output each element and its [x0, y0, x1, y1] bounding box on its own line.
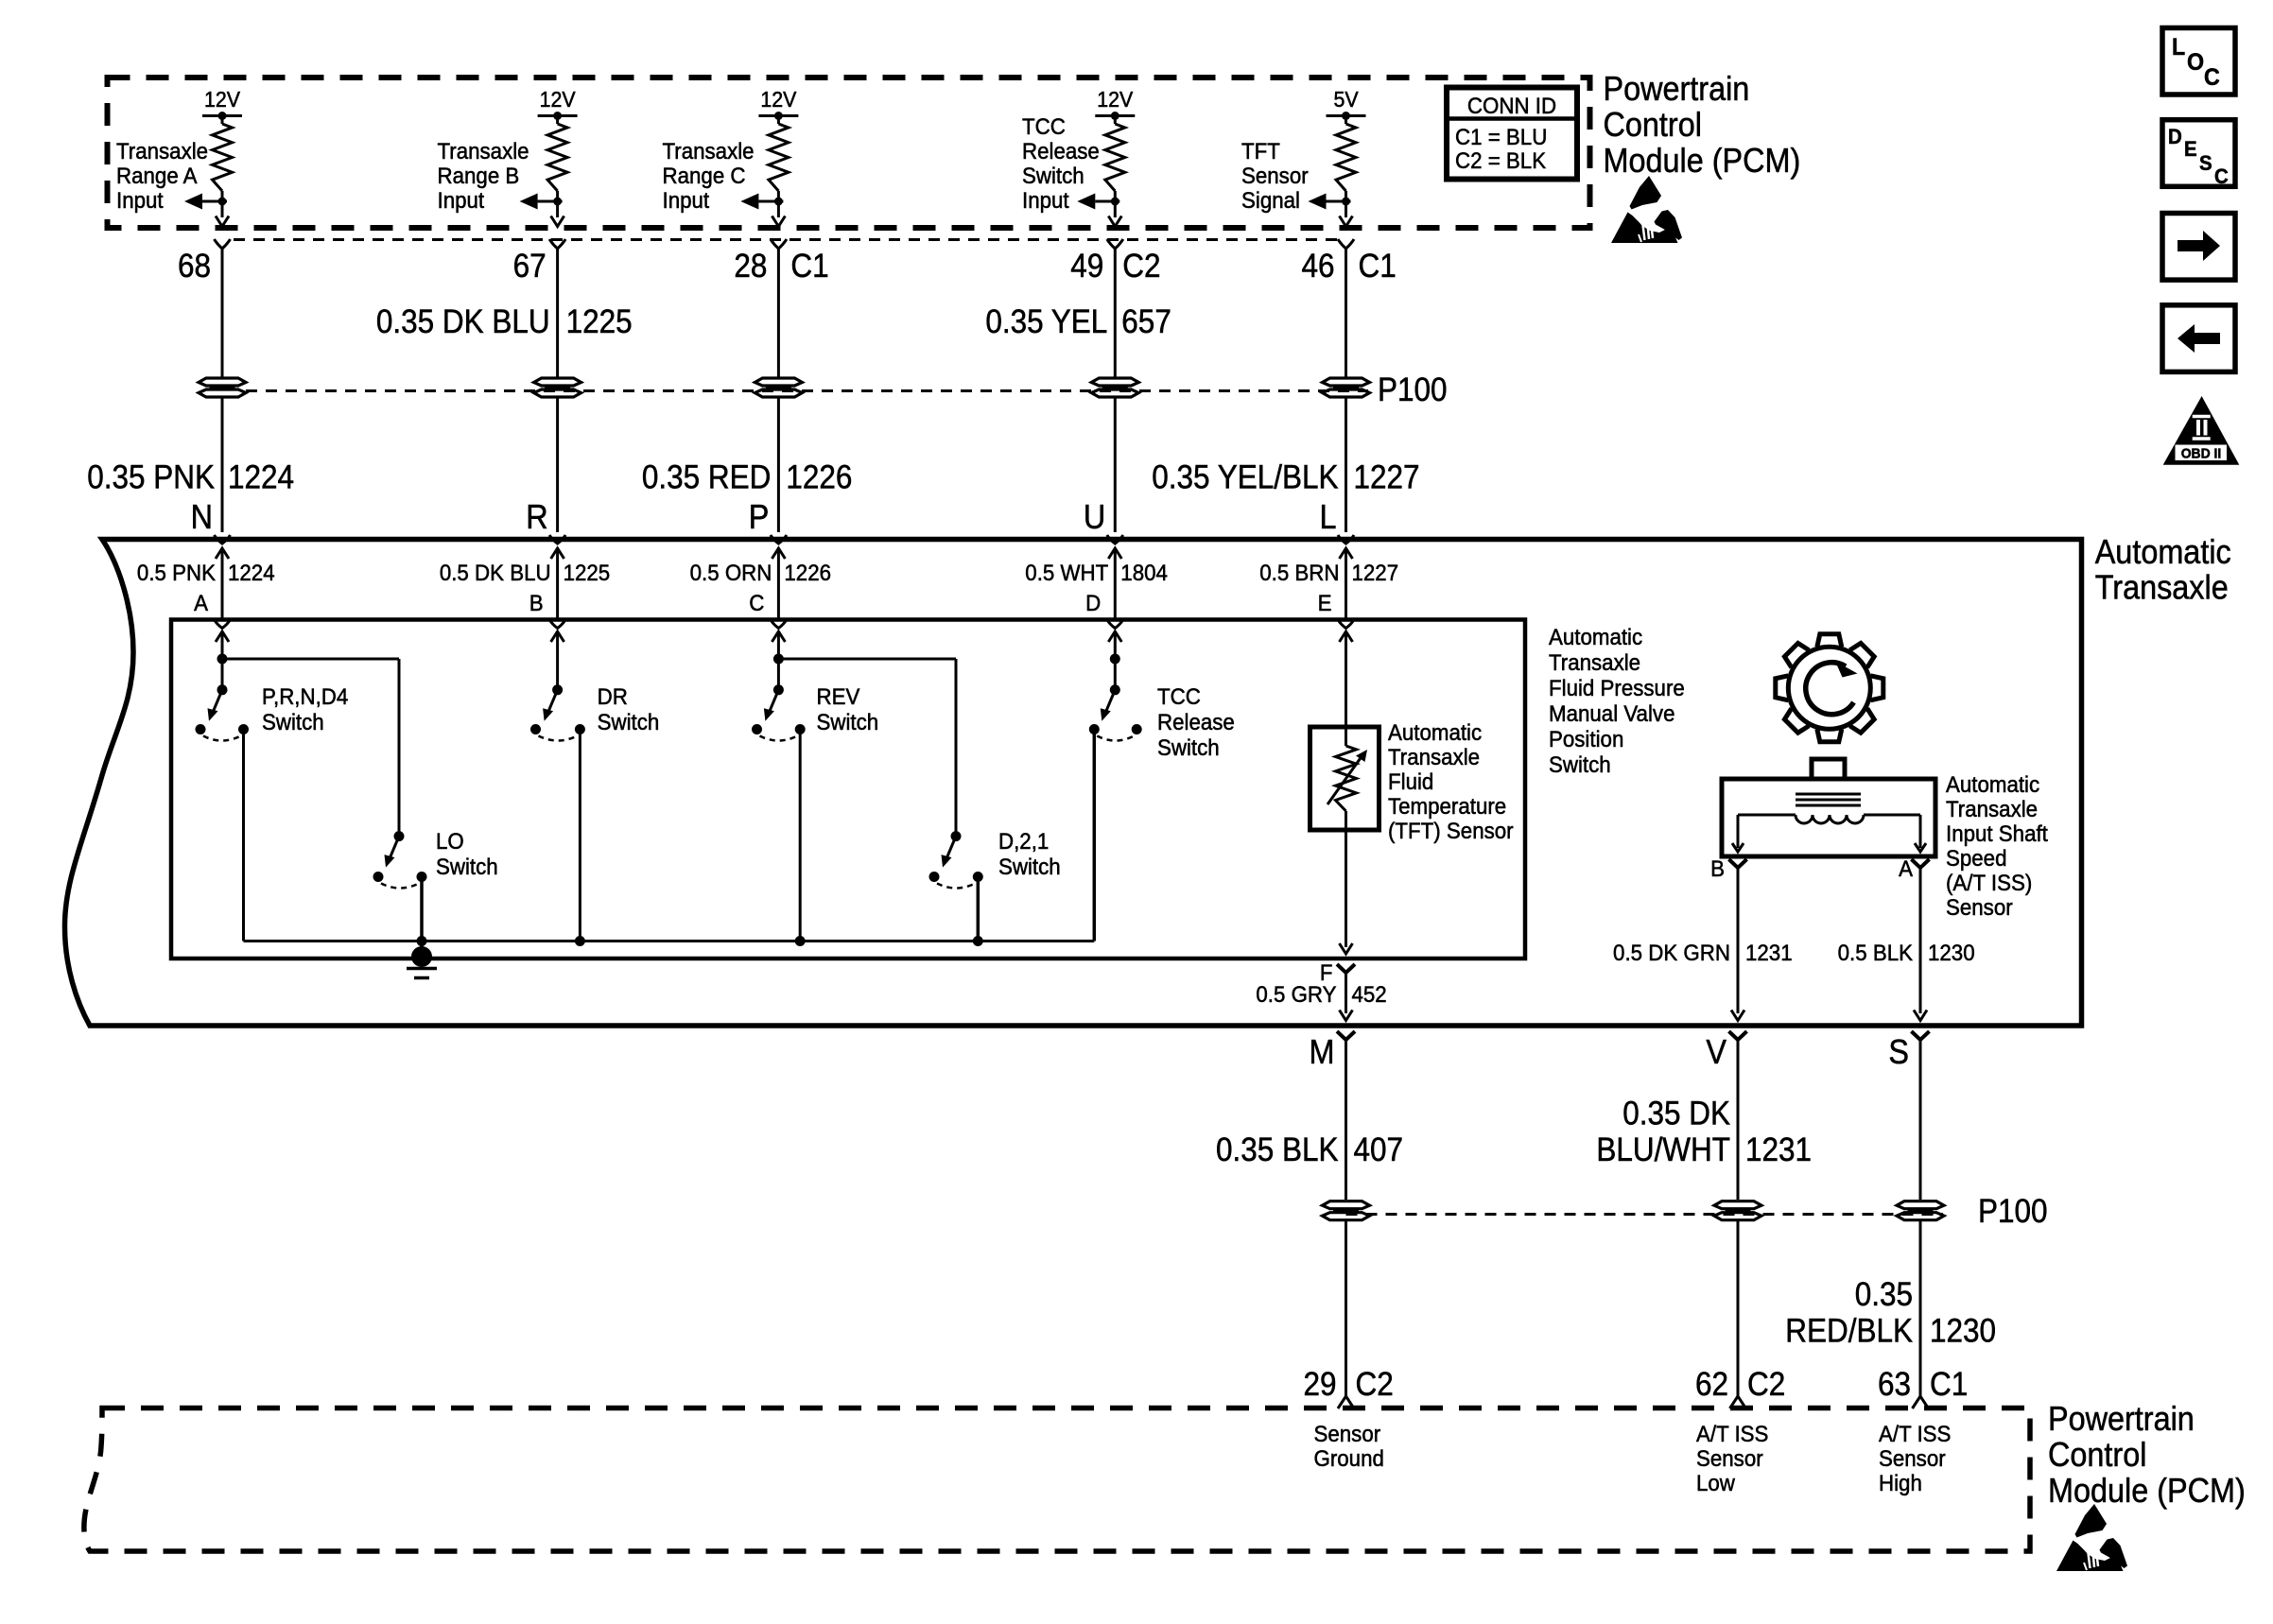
svg-text:C1: C1 — [1930, 1367, 1968, 1404]
svg-text:0.35 BLK: 0.35 BLK — [1216, 1132, 1339, 1169]
wire pin C down — [777, 631, 780, 690]
svg-text:Ground: Ground — [1314, 1445, 1384, 1471]
wire column 5 PCM to P100 — [1345, 249, 1347, 377]
svg-text:Signal: Signal — [1241, 187, 1300, 213]
svg-text:Release: Release — [1157, 709, 1235, 734]
icon right-arrow box — [2162, 214, 2235, 281]
wire S to P100 — [1919, 1040, 1922, 1200]
svg-text:A/T ISS: A/T ISS — [1696, 1421, 1768, 1446]
svg-text:S: S — [2199, 151, 2212, 175]
svg-text:D,2,1: D,2,1 — [998, 828, 1049, 854]
wire branch C to D,2,1 switch — [778, 658, 956, 661]
sensor core lines — [1796, 793, 1861, 796]
svg-text:Switch: Switch — [998, 854, 1061, 879]
svg-text:Automatic: Automatic — [1946, 771, 2039, 797]
svg-text:0.35 YEL: 0.35 YEL — [985, 304, 1107, 341]
wire S P100 to PCM — [1919, 1221, 1922, 1396]
svg-text:C1: C1 — [1359, 249, 1397, 285]
sensor internal wires — [1738, 814, 1796, 817]
svg-text:1225: 1225 — [566, 304, 633, 341]
junction dot REV pivot — [773, 684, 784, 695]
wire M P100 to PCM — [1345, 1221, 1347, 1396]
junction dot DR bus — [575, 936, 585, 946]
svg-text:Input: Input — [1022, 187, 1069, 213]
svg-text:0.5 ORN: 0.5 ORN — [690, 560, 772, 585]
svg-text:1224: 1224 — [228, 459, 294, 496]
TFT variable resistor — [1345, 727, 1347, 746]
svg-text:0.35 DK: 0.35 DK — [1622, 1096, 1730, 1132]
junction dot REV bus — [795, 936, 806, 946]
label Automatic Transaxle Input Shaft Speed (A/T ISS) Sensor — [1946, 771, 2048, 920]
svg-text:63: 63 — [1878, 1367, 1911, 1404]
label TCC Release Switch Input — [1022, 113, 1100, 213]
svg-text:0.5 GRY: 0.5 GRY — [1256, 981, 1336, 1007]
svg-text:L: L — [1319, 498, 1336, 536]
terminal at transaxle bottom pin S — [1912, 1031, 1930, 1040]
label REV Switch — [817, 683, 879, 734]
svg-text:Transaxle: Transaxle — [1388, 744, 1480, 769]
junction dots TCC — [1110, 654, 1120, 665]
terminal at switch box top pin E — [1338, 620, 1354, 629]
svg-text:A/T ISS: A/T ISS — [1879, 1421, 1951, 1446]
svg-text:V: V — [1706, 1033, 1726, 1071]
wire column 5 P100 to transaxle — [1345, 398, 1347, 532]
svg-text:1231: 1231 — [1745, 1132, 1812, 1169]
svg-text:C1: C1 — [790, 249, 828, 285]
label Automatic Transaxle — [2095, 533, 2231, 606]
wire F to transaxle edge — [1345, 973, 1347, 1013]
label D,2,1 Switch — [998, 828, 1061, 879]
junction dot A branch — [217, 654, 228, 665]
svg-text:TFT: TFT — [1241, 138, 1280, 164]
wire into transaxle column 1 — [221, 548, 224, 619]
svg-text:12V: 12V — [540, 87, 576, 112]
wire LO to ground — [420, 877, 424, 958]
svg-text:Control: Control — [2048, 1436, 2146, 1474]
terminal at transaxle bottom pin V — [1729, 1031, 1747, 1040]
svg-text:0.35 PNK: 0.35 PNK — [87, 459, 215, 496]
icon OBD II triangle — [2163, 396, 2240, 465]
svg-text:B: B — [529, 590, 544, 615]
switch blade REV — [769, 690, 779, 714]
svg-text:Powertrain: Powertrain — [2048, 1400, 2195, 1438]
svg-text:62: 62 — [1695, 1367, 1728, 1404]
PCM module box (top, dashed outline) — [108, 78, 1590, 228]
svg-text:Switch: Switch — [1157, 734, 1220, 760]
wire pin A down — [221, 631, 224, 690]
svg-text:Control: Control — [1604, 106, 1702, 144]
contact dots LO switch — [373, 872, 384, 882]
junction dot C branch — [773, 654, 784, 665]
junction dot D,2,1 bus — [973, 936, 983, 946]
svg-text:1225: 1225 — [564, 560, 611, 585]
svg-text:DR: DR — [598, 683, 628, 709]
terminal at transaxle top column 5 — [1338, 535, 1354, 544]
svg-text:Powertrain: Powertrain — [1604, 70, 1750, 108]
svg-text:A: A — [194, 590, 208, 615]
wire TCC release to ground bus — [1093, 730, 1097, 942]
svg-text:12V: 12V — [1097, 87, 1133, 112]
svg-text:Transaxle: Transaxle — [438, 138, 529, 164]
svg-text:TCC: TCC — [1157, 683, 1201, 709]
icon LOC box — [2162, 28, 2235, 95]
terminal at PCM pin column 2 — [549, 239, 565, 249]
svg-text:Release: Release — [1022, 138, 1100, 164]
P100 connector S — [1897, 1201, 1944, 1209]
svg-text:D: D — [1085, 590, 1101, 615]
svg-text:Input: Input — [438, 187, 485, 213]
ground bus wire — [244, 940, 1095, 942]
switch blade DR — [547, 690, 558, 714]
svg-text:0.5 DK BLU: 0.5 DK BLU — [440, 560, 551, 585]
svg-text:49: 49 — [1070, 249, 1103, 285]
svg-text:Range C: Range C — [663, 163, 746, 188]
terminal at bottom PCM pin V — [1730, 1396, 1746, 1408]
terminal at PCM pin column 3 — [771, 239, 787, 249]
svg-text:Automatic: Automatic — [1388, 719, 1482, 745]
terminal at switch box top pin C — [771, 620, 787, 629]
svg-text:Switch: Switch — [262, 709, 324, 734]
svg-text:Manual Valve: Manual Valve — [1549, 700, 1674, 726]
svg-text:LO: LO — [436, 828, 464, 854]
svg-text:P,R,N,D4: P,R,N,D4 — [262, 683, 348, 709]
icon left-arrow box — [2162, 305, 2235, 372]
wire into transaxle column 4 — [1114, 548, 1117, 619]
terminal at transaxle top column 4 — [1107, 535, 1123, 544]
P100 connector column 2 — [534, 378, 581, 386]
svg-text:Switch: Switch — [436, 854, 498, 879]
junction dot A pivot — [217, 684, 228, 695]
contact dots REV switch — [752, 724, 762, 734]
terminal pin A — [1912, 859, 1930, 868]
svg-text:A: A — [1899, 855, 1913, 881]
svg-text:1230: 1230 — [1928, 940, 1975, 965]
svg-text:Speed: Speed — [1946, 845, 2006, 871]
resistor pull-up 12V column 4 — [1077, 87, 1135, 226]
svg-text:68: 68 — [178, 249, 211, 285]
svg-text:P100: P100 — [1378, 372, 1448, 409]
junction dot LO pivot — [394, 831, 405, 841]
svg-text:REV: REV — [817, 683, 860, 709]
ESD sensitive symbol (top) — [1611, 176, 1682, 243]
svg-text:657: 657 — [1121, 304, 1171, 341]
svg-text:0.5 PNK: 0.5 PNK — [137, 560, 217, 585]
P100 connector column 4 — [1091, 378, 1138, 386]
svg-text:1226: 1226 — [784, 560, 831, 585]
svg-text:Input Shaft: Input Shaft — [1946, 821, 2048, 846]
terminal at PCM pin column 4 — [1107, 239, 1123, 249]
wire branch A to LO switch — [222, 658, 399, 661]
svg-text:BLU/WHT: BLU/WHT — [1596, 1132, 1730, 1169]
svg-text:Sensor: Sensor — [1946, 894, 2013, 920]
P100 bulkhead dashed line (bottom) — [1346, 1213, 1944, 1216]
P100 bulkhead dashed line — [246, 389, 1368, 392]
svg-text:Range B: Range B — [438, 163, 520, 188]
svg-text:E: E — [1318, 590, 1332, 615]
switch blade D,2,1 — [946, 837, 957, 860]
svg-text:P100: P100 — [1978, 1194, 2048, 1231]
resistor pull-up 12V column 2 — [520, 87, 578, 226]
wire M to P100 — [1345, 1040, 1347, 1200]
junction dot D,2,1 pivot — [951, 831, 962, 841]
svg-text:Automatic: Automatic — [1549, 624, 1642, 649]
resistor pull-up 12V column 3 — [740, 87, 798, 226]
svg-text:5V: 5V — [1333, 87, 1358, 112]
icon DESC box — [2162, 120, 2235, 188]
resistor pull-up 5V column 5 — [1309, 87, 1366, 226]
wire into transaxle column 5 — [1345, 548, 1347, 619]
terminal at transaxle bottom pin M — [1337, 1031, 1355, 1040]
svg-text:(A/T ISS): (A/T ISS) — [1946, 870, 2032, 895]
svg-text:0.35 YEL/BLK: 0.35 YEL/BLK — [1152, 459, 1338, 496]
PCM module box (bottom, dashed outline) — [84, 1408, 2030, 1552]
svg-text:N: N — [191, 498, 213, 536]
svg-text:0.35 DK BLU: 0.35 DK BLU — [376, 304, 550, 341]
label Powertrain Control Module (PCM) bottom right — [2048, 1400, 2246, 1510]
svg-text:Transaxle: Transaxle — [663, 138, 755, 164]
label P,R,N,D4 Switch — [262, 683, 348, 734]
label TFT Sensor Signal — [1241, 138, 1309, 213]
CONN ID table — [1447, 88, 1577, 180]
PCM connector face (thin dashed line) — [234, 238, 1337, 241]
switch blade LO — [390, 837, 400, 860]
wire column 3 PCM to P100 — [777, 249, 780, 377]
svg-text:Module (PCM): Module (PCM) — [2048, 1472, 2246, 1510]
svg-text:0.35 RED: 0.35 RED — [642, 459, 772, 496]
TFT sensor box — [1310, 727, 1379, 830]
terminal at transaxle top column 1 — [215, 535, 231, 544]
svg-text:0.35: 0.35 — [1855, 1277, 1913, 1314]
contact dots DR switch — [530, 724, 541, 734]
ESD sensitive symbol (bottom) — [2056, 1504, 2127, 1571]
svg-text:C2: C2 — [1356, 1367, 1394, 1404]
svg-text:12V: 12V — [760, 87, 796, 112]
terminal pin F — [1337, 964, 1355, 973]
terminal at switch box top pin D — [1107, 620, 1123, 629]
svg-text:S: S — [1888, 1033, 1909, 1071]
svg-text:Fluid: Fluid — [1388, 769, 1433, 794]
terminal at bottom PCM pin M — [1338, 1396, 1354, 1408]
wire into transaxle column 2 — [556, 548, 559, 619]
label A/T ISS Sensor Low — [1696, 1421, 1768, 1495]
svg-text:1224: 1224 — [228, 560, 275, 585]
svg-text:0.5 BRN: 0.5 BRN — [1259, 560, 1339, 585]
label Transaxle Range C Input — [663, 138, 755, 213]
label A/T ISS Sensor High — [1879, 1421, 1951, 1495]
label Transaxle Range B Input — [438, 138, 529, 213]
wire V to P100 — [1737, 1040, 1740, 1200]
wire B to transaxle edge — [1737, 868, 1740, 1013]
terminal pin B — [1729, 859, 1747, 868]
label TCC Release Switch — [1157, 683, 1235, 760]
svg-text:Sensor: Sensor — [1879, 1445, 1946, 1471]
terminal at transaxle top column 2 — [549, 535, 565, 544]
label Automatic Transaxle Fluid Pressure Manual Valve Position Switch — [1549, 624, 1685, 777]
svg-text:Sensor: Sensor — [1314, 1421, 1381, 1446]
svg-text:Transaxle: Transaxle — [1549, 649, 1640, 675]
svg-text:O: O — [2187, 49, 2204, 76]
label Powertrain Control Module (PCM) top right — [1604, 70, 1801, 180]
switch blade P,R,N,D4 — [213, 690, 223, 714]
svg-text:1804: 1804 — [1120, 560, 1168, 585]
terminal at switch box top pin B — [549, 620, 565, 629]
svg-text:0.5 BLK: 0.5 BLK — [1838, 940, 1914, 965]
svg-text:Input: Input — [116, 187, 164, 213]
manual valve position switch box — [171, 620, 1525, 959]
label DR Switch — [598, 683, 660, 734]
svg-text:12V: 12V — [204, 87, 240, 112]
wire column 2 PCM to P100 — [556, 249, 559, 377]
svg-text:R: R — [526, 498, 547, 536]
switch blade TCC release — [1105, 690, 1116, 714]
terminal at switch box top pin A — [215, 620, 231, 629]
svg-text:TCC: TCC — [1022, 113, 1066, 139]
terminal at bottom PCM pin S — [1913, 1396, 1929, 1408]
terminal at PCM pin column 1 — [215, 239, 231, 249]
label Sensor Ground — [1314, 1421, 1384, 1471]
svg-text:1227: 1227 — [1352, 560, 1399, 585]
svg-text:29: 29 — [1303, 1367, 1336, 1404]
label Automatic Transaxle Fluid Temperature (TFT) Sensor — [1388, 719, 1514, 843]
svg-text:C2 = BLK: C2 = BLK — [1455, 147, 1547, 173]
terminal at PCM pin column 5 — [1338, 239, 1354, 249]
P100 connector column 1 — [199, 378, 246, 386]
svg-text:Switch: Switch — [1022, 163, 1084, 188]
wire column 3 P100 to transaxle — [777, 398, 780, 532]
P100 connector V — [1714, 1201, 1761, 1209]
svg-text:1226: 1226 — [786, 459, 852, 496]
svg-text:46: 46 — [1301, 249, 1334, 285]
svg-text:M: M — [1310, 1033, 1335, 1071]
junction dot LO bus — [417, 936, 427, 946]
svg-text:D: D — [2168, 125, 2182, 148]
svg-text:407: 407 — [1354, 1132, 1404, 1169]
wire A to transaxle edge — [1919, 868, 1922, 1013]
contact dots TCC release switch — [1089, 724, 1100, 734]
svg-text:Sensor: Sensor — [1696, 1445, 1763, 1471]
wire column 1 PCM to P100 — [221, 249, 224, 377]
wire column 1 P100 to transaxle — [221, 398, 224, 532]
wire pin D down — [1114, 631, 1117, 690]
svg-text:1231: 1231 — [1745, 940, 1793, 965]
svg-text:C1 = BLU: C1 = BLU — [1455, 124, 1547, 149]
contact dots P,R,N,D4 switch — [196, 724, 206, 734]
svg-text:Switch: Switch — [598, 709, 660, 734]
svg-text:C2: C2 — [1747, 1367, 1785, 1404]
svg-text:Temperature: Temperature — [1388, 793, 1506, 819]
svg-text:High: High — [1879, 1470, 1922, 1495]
terminal at transaxle top column 3 — [771, 535, 787, 544]
resistor pull-up 12V column 1 — [184, 87, 242, 226]
wire pin E down — [1345, 631, 1347, 727]
TFT resistor arrow — [1327, 755, 1362, 804]
svg-text:P: P — [749, 498, 770, 536]
svg-text:28: 28 — [734, 249, 767, 285]
svg-text:CONN ID: CONN ID — [1467, 93, 1556, 118]
wire REV to ground bus — [799, 730, 802, 942]
wire DR to ground bus — [579, 730, 581, 942]
wire V P100 to PCM — [1737, 1221, 1740, 1396]
svg-text:Transaxle: Transaxle — [116, 138, 208, 164]
svg-text:RED/BLK: RED/BLK — [1785, 1313, 1913, 1350]
label Transaxle Range A Input — [116, 138, 208, 213]
wire D,2,1 to ground bus — [977, 877, 980, 942]
svg-text:E: E — [2184, 137, 2197, 161]
svg-text:67: 67 — [513, 249, 547, 285]
gear icon — [1776, 634, 1883, 742]
svg-text:C: C — [2214, 164, 2229, 188]
svg-text:(TFT) Sensor: (TFT) Sensor — [1388, 818, 1514, 843]
svg-text:Range A: Range A — [116, 163, 198, 188]
svg-text:Input: Input — [663, 187, 710, 213]
wire column 4 PCM to P100 — [1114, 249, 1117, 377]
svg-text:Switch: Switch — [817, 709, 879, 734]
svg-text:0.5 WHT: 0.5 WHT — [1025, 560, 1108, 585]
wire pin B down — [556, 631, 559, 690]
svg-text:Sensor: Sensor — [1241, 163, 1309, 188]
svg-text:0.5 DK GRN: 0.5 DK GRN — [1613, 940, 1730, 965]
svg-text:Position: Position — [1549, 726, 1623, 752]
ground symbol — [411, 946, 432, 967]
P100 connector column 3 — [755, 378, 802, 386]
svg-text:452: 452 — [1352, 981, 1387, 1007]
svg-text:Low: Low — [1696, 1470, 1735, 1495]
wire into transaxle column 3 — [777, 548, 780, 619]
svg-text:OBD II: OBD II — [2181, 446, 2222, 462]
sensor coil — [1796, 815, 1864, 823]
wire column 4 P100 to transaxle — [1114, 398, 1117, 532]
svg-text:1230: 1230 — [1930, 1313, 1996, 1350]
svg-text:1227: 1227 — [1354, 459, 1420, 496]
P100 connector column 5 — [1323, 378, 1370, 386]
contact dots D,2,1 switch — [929, 872, 940, 882]
svg-text:C: C — [749, 590, 764, 615]
P100 connector M — [1323, 1201, 1370, 1209]
wire column 2 P100 to transaxle — [556, 398, 559, 532]
svg-text:Fluid Pressure: Fluid Pressure — [1549, 675, 1685, 700]
svg-text:Switch: Switch — [1549, 752, 1611, 777]
svg-text:Transaxle: Transaxle — [1946, 796, 2038, 821]
svg-text:Module (PCM): Module (PCM) — [1604, 142, 1801, 180]
svg-text:Transaxle: Transaxle — [2095, 569, 2229, 607]
svg-text:Automatic: Automatic — [2095, 533, 2231, 571]
svg-text:L: L — [2172, 34, 2185, 60]
label LO Switch — [436, 828, 498, 879]
wire P,R,N,D4 to ground bus — [242, 730, 245, 942]
svg-text:U: U — [1084, 498, 1105, 536]
svg-text:B: B — [1710, 855, 1725, 881]
wire TFT to pin F — [1345, 830, 1347, 947]
svg-text:C2: C2 — [1122, 249, 1160, 285]
svg-text:C: C — [2204, 64, 2220, 91]
junction dot DR pivot — [552, 684, 563, 695]
A/T ISS sensor body — [1812, 759, 1845, 779]
Automatic Transaxle box (torn left edge) — [64, 540, 2081, 1027]
